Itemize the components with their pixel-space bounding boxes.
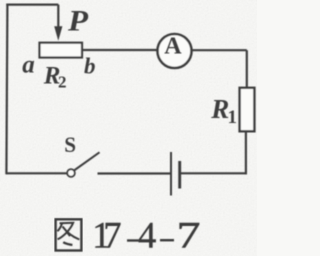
caption text 17-4-7 <box>92 214 200 255</box>
svg-text:R: R <box>210 94 229 124</box>
wire top-left horizontal <box>6 3 58 5</box>
switch S pivot circle <box>67 169 75 177</box>
svg-text:2: 2 <box>58 73 67 92</box>
svg-text:S: S <box>64 132 76 157</box>
svg-text:7: 7 <box>177 214 201 255</box>
wire ammeter to top-right corner <box>192 49 247 51</box>
rheostat R2 body <box>40 43 83 58</box>
battery positive long plate <box>170 152 172 196</box>
ammeter U1 circle <box>158 34 192 68</box>
wire right vertical upper <box>246 50 248 88</box>
wire left vertical <box>6 4 7 175</box>
svg-text:P: P <box>67 5 89 38</box>
svg-text:1: 1 <box>228 107 238 128</box>
wire bottom middle (switch to battery) <box>98 172 171 174</box>
svg-text:b: b <box>84 54 96 79</box>
svg-text:A: A <box>164 34 182 60</box>
svg-text:a: a <box>22 51 35 78</box>
arrowhead of slider P <box>54 26 62 41</box>
battery negative short plate <box>178 161 181 189</box>
svg-text:4: 4 <box>138 214 156 255</box>
wire bottom right (battery to corner) <box>181 172 247 174</box>
wire bottom left <box>6 172 67 174</box>
wire slider-arrow shaft P <box>57 5 59 27</box>
caption glyph 图 <box>56 219 82 250</box>
wire right vertical lower <box>245 131 247 174</box>
switch S lever <box>74 152 100 170</box>
wire rheostat b to ammeter <box>82 49 158 51</box>
svg-text:7: 7 <box>103 214 121 255</box>
resistor R1 body <box>240 88 255 132</box>
